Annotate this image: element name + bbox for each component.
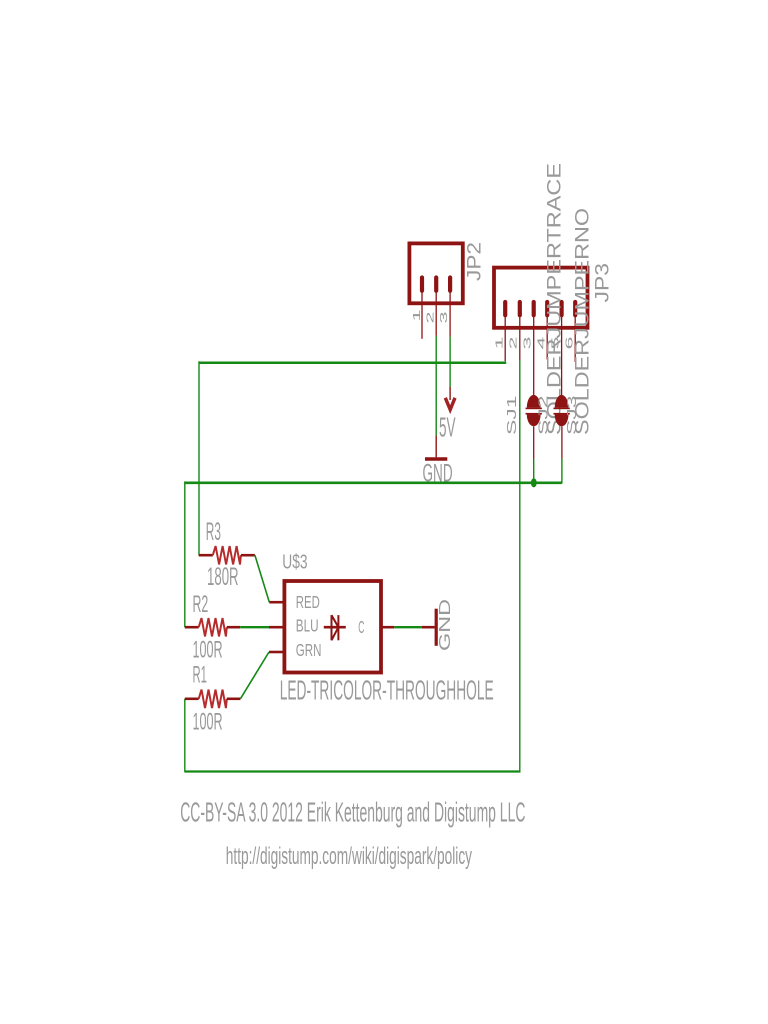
- wire SJ3 to bus: [561, 459, 563, 484]
- svg-text:U$3: U$3: [282, 552, 307, 574]
- JP3 pin 3 lead: [533, 316, 535, 396]
- svg-text:100R: 100R: [193, 637, 223, 664]
- BLU pin stub: [269, 626, 284, 629]
- JP3 pin 2 lead: [519, 316, 521, 360]
- JP3 pin 6 lead: [574, 316, 576, 362]
- svg-text:R2: R2: [193, 591, 209, 618]
- wire net V+ horizontal: [199, 361, 507, 364]
- JP3 pin 4 lead: [546, 316, 548, 360]
- JP2 pin 1 pad: [420, 278, 424, 291]
- SJ3 bottom pin lead: [561, 426, 563, 458]
- C pin stub: [381, 626, 394, 629]
- solder jumper SJ2: [526, 395, 542, 426]
- svg-text:JP3: JP3: [593, 263, 614, 303]
- wire bottom loop left vertical: [184, 699, 186, 773]
- svg-text:http://digistump.com/wiki/digi: http://digistump.com/wiki/digispark/poli…: [226, 843, 472, 870]
- JP2 pin 2 pad: [434, 278, 438, 291]
- JP3 pin 6 pad: [573, 302, 577, 315]
- wire bottom loop horizontal: [185, 770, 521, 772]
- svg-text:GRN: GRN: [296, 640, 322, 660]
- JP3 pin 1 lead: [504, 316, 506, 361]
- ground GND (under JP2 pin 2): [425, 435, 447, 459]
- JP3 pin 1 pad: [503, 302, 507, 315]
- JP2 pin 1 lead: [421, 292, 423, 339]
- connector JP3: [494, 268, 588, 328]
- supply 5V arrow: [445, 387, 455, 410]
- wire net bus horizontal: [185, 481, 562, 484]
- JP3 pin 5 pad: [559, 302, 563, 315]
- JP3 pin 2 pad: [518, 302, 522, 315]
- svg-text:SJ1: SJ1: [504, 396, 519, 436]
- JP2 pin 3 pad: [448, 278, 452, 291]
- wire SJ1 vertical: [519, 360, 521, 772]
- svg-text:3: 3: [522, 335, 533, 349]
- LED diode symbol: [324, 615, 346, 640]
- svg-text:R1: R1: [193, 661, 207, 688]
- svg-text:3: 3: [439, 311, 450, 324]
- svg-text:RED: RED: [296, 592, 320, 612]
- wire C pin to GND: [394, 626, 421, 628]
- JP2 pin 3 lead: [449, 292, 451, 337]
- svg-text:CC-BY-SA 3.0 2012 Erik Kettenb: CC-BY-SA 3.0 2012 Erik Kettenburg and Di…: [180, 797, 525, 828]
- resistor R3: [199, 546, 255, 565]
- wire JP2 pin3 to 5V: [449, 337, 451, 387]
- wire SJ2 to bus: [533, 459, 535, 483]
- svg-text:GND: GND: [423, 460, 453, 488]
- GRN pin stub: [269, 651, 284, 654]
- svg-text:180R: 180R: [207, 563, 239, 591]
- connector JP2: [409, 243, 462, 303]
- resistor R2: [185, 618, 240, 637]
- ground GND (right of LED): [422, 609, 437, 646]
- svg-text:BLU: BLU: [296, 615, 319, 635]
- svg-text:1: 1: [494, 335, 505, 349]
- wire JP2 pin2 to GND: [435, 336, 437, 436]
- svg-text:SOLDERJUMPERTRACE: SOLDERJUMPERTRACE: [544, 163, 565, 435]
- resistor R1: [185, 690, 241, 709]
- svg-text:LED-TRICOLOR-THROUGHHOLE: LED-TRICOLOR-THROUGHHOLE: [280, 675, 494, 706]
- wire net V+ vertical to R3: [198, 361, 200, 555]
- JP3 pin 5 lead: [561, 316, 563, 396]
- svg-text:GND: GND: [437, 599, 454, 651]
- svg-text:100R: 100R: [193, 709, 223, 736]
- wire net bus left vertical to R2: [184, 481, 186, 627]
- svg-text:R3: R3: [206, 518, 221, 546]
- SJ2 bottom pin lead: [533, 426, 535, 458]
- JP3 pin 4 pad: [545, 302, 549, 315]
- wire R2 to BLU pin: [240, 626, 269, 628]
- wire R1 to GRN pin: [240, 652, 269, 699]
- svg-text:SJ2: SJ2: [536, 396, 551, 436]
- solder jumper SJ3: [553, 395, 569, 426]
- wire R3 to RED pin: [255, 555, 269, 602]
- svg-text:1: 1: [412, 309, 423, 322]
- svg-text:2: 2: [425, 311, 436, 324]
- junction dot: [531, 478, 537, 487]
- svg-text:2: 2: [508, 335, 519, 349]
- svg-text:SJ3: SJ3: [564, 396, 579, 436]
- RED pin stub: [269, 601, 284, 604]
- LED U$3 box: [284, 581, 381, 673]
- svg-text:C: C: [358, 617, 364, 637]
- JP3 pin 3 pad: [532, 302, 536, 315]
- svg-text:JP2: JP2: [465, 242, 486, 281]
- svg-text:5V: 5V: [439, 411, 456, 442]
- JP2 pin 2 lead: [435, 292, 437, 336]
